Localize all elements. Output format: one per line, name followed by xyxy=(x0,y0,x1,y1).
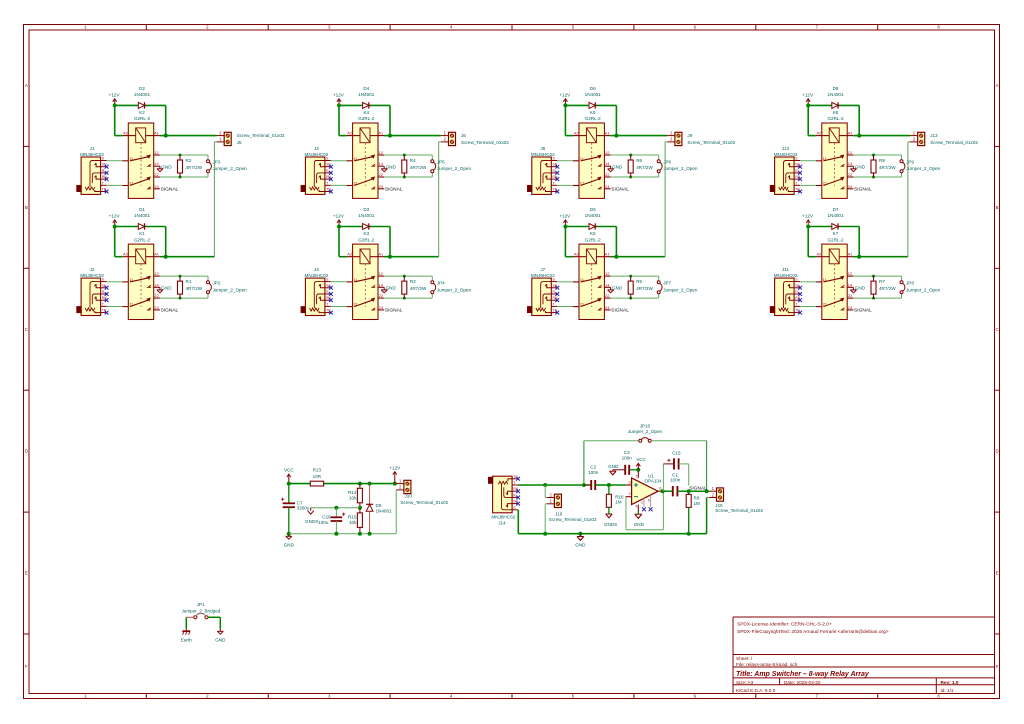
svg-text:12: 12 xyxy=(605,271,610,276)
svg-text:3: 3 xyxy=(629,480,631,484)
relay K1 (G2RL-2 DPDT) xyxy=(122,244,160,319)
svg-text:1: 1 xyxy=(641,500,643,504)
svg-text:T: T xyxy=(513,481,515,485)
wire K2 pins 12/22 to R2 and JP3 xyxy=(160,154,208,179)
svg-text:Jumper_2_Open: Jumper_2_Open xyxy=(906,166,941,171)
svg-text:SPDX-FileCopyrightText: 2025 A: SPDX-FileCopyrightText: 2025 Arnaud Ferr… xyxy=(737,629,889,635)
svg-text:GND: GND xyxy=(855,286,866,291)
ground GNDS at divider midpoint xyxy=(305,508,318,524)
wire +12V to K8 coil A2/A1 via D8 xyxy=(806,103,861,137)
svg-text:21: 21 xyxy=(353,302,358,307)
svg-text:R6: R6 xyxy=(636,158,642,163)
svg-text:R5: R5 xyxy=(636,279,642,284)
jumper JP5 (Jumper_2_Open) xyxy=(431,160,472,173)
svg-text:JP10: JP10 xyxy=(640,424,651,429)
svg-text:J3: J3 xyxy=(314,146,319,151)
wire J7 T to K5 pin 21 xyxy=(557,306,573,308)
ground GND on rail xyxy=(575,532,586,548)
K6 pin numbers xyxy=(574,130,611,188)
wire K7 pins 12/22 to R7 and JP8 xyxy=(853,275,901,300)
svg-text:1M: 1M xyxy=(694,501,701,506)
wire K8 pins 12/22 to R8 and JP9 xyxy=(853,154,901,179)
svg-text:MNJ6HC02: MNJ6HC02 xyxy=(491,515,515,520)
ground GND at K5 pin 14 xyxy=(608,286,623,293)
wire power section ground rail xyxy=(289,532,396,536)
net label SIGNAL at K5 pin 24 xyxy=(611,308,629,314)
svg-text:Screw_Terminal_01x02: Screw_Terminal_01x02 xyxy=(461,140,509,145)
wire K6 A1 to screw terminal J9 pin 1 xyxy=(616,135,667,137)
svg-text:MNJ6HC02: MNJ6HC02 xyxy=(80,273,104,278)
svg-text:GND: GND xyxy=(161,286,172,291)
svg-text:Title: Amp Switcher – 8-way Re: Title: Amp Switcher – 8-way Relay Array xyxy=(736,671,870,678)
net label SIGNAL at K8 pin 24 xyxy=(854,187,872,193)
svg-text:K2: K2 xyxy=(139,110,145,115)
no-connect flags on J11 xyxy=(798,286,802,315)
connector J3 (MNJ6HC02 jack) xyxy=(301,146,332,195)
svg-text:Jumper_2_Open: Jumper_2_Open xyxy=(663,166,698,171)
wire U1 output node xyxy=(661,489,673,493)
wire J15 pin 2 to ground rail xyxy=(707,498,709,534)
svg-text:14: 14 xyxy=(379,161,384,166)
svg-text:GND: GND xyxy=(855,165,866,170)
svg-text:Earth: Earth xyxy=(181,638,192,643)
connector J12 (MNJ6HC02 jack) xyxy=(770,146,801,195)
svg-text:C3: C3 xyxy=(624,450,630,455)
svg-text:GNDS: GNDS xyxy=(305,519,318,524)
relay K6 (G2RL-2 DPDT) xyxy=(573,123,611,198)
svg-text:SIGNAL: SIGNAL xyxy=(161,308,179,314)
svg-text:Screw_Terminal_01x02: Screw_Terminal_01x02 xyxy=(715,508,763,513)
ground GND at C3 xyxy=(608,464,619,475)
wire J7 S to K5 pin 11 xyxy=(557,281,573,283)
connector J1 (MNJ6HC02 jack) xyxy=(77,146,108,195)
jumper JP3 (Jumper_2_Open) xyxy=(207,160,248,173)
resistor R9 (1M) xyxy=(686,491,700,534)
wire +12V to K2 coil A2/A1 via D2 xyxy=(113,103,168,137)
svg-text:K5: K5 xyxy=(590,231,596,236)
no-connect flags on J12 xyxy=(798,165,802,194)
svg-text:12: 12 xyxy=(848,271,853,276)
svg-text:A2: A2 xyxy=(574,252,580,257)
ground GNDS below R16 xyxy=(604,514,617,527)
power flag +12V (K1) xyxy=(109,214,121,227)
svg-text:B: B xyxy=(25,205,28,210)
connector J11 (MNJ6HC02 jack) xyxy=(770,267,801,316)
ground GND at K2 pin 14 xyxy=(157,165,172,172)
resistor R4 (4R7/2W) xyxy=(402,155,427,177)
screw terminal J16 (Screw_Terminal_01x02) xyxy=(547,492,597,522)
K7 reference and value labels xyxy=(827,231,844,242)
jumper JP4 (Jumper_2_Open) xyxy=(431,281,472,294)
svg-text:Jumper_2_Open: Jumper_2_Open xyxy=(663,287,698,292)
border row letters xyxy=(25,83,999,669)
capacitor C3 (100n decoupling) xyxy=(613,450,639,475)
wire J3 T to K4 pin 21 xyxy=(331,184,347,186)
relay K2 (G2RL-2 DPDT) xyxy=(122,123,160,198)
svg-text:12: 12 xyxy=(605,150,610,155)
svg-text:MNJ6HC02: MNJ6HC02 xyxy=(531,273,555,278)
svg-text:JP2: JP2 xyxy=(213,281,221,286)
title block frame xyxy=(733,617,995,694)
svg-text:KiCad E.D.A. 9.0.0: KiCad E.D.A. 9.0.0 xyxy=(736,688,776,693)
wire K4 A1 to screw terminal J6 pin 1 xyxy=(390,135,441,137)
wire J3 S to K4 pin 11 xyxy=(331,160,347,162)
svg-text:+12V: +12V xyxy=(109,214,121,219)
svg-text:D: D xyxy=(25,449,28,454)
svg-text:MNJ6HC02: MNJ6HC02 xyxy=(305,152,329,157)
feedback wire U1 output to inverting input xyxy=(625,491,663,530)
svg-text:G2RL-2: G2RL-2 xyxy=(134,237,151,242)
svg-text:JP1: JP1 xyxy=(197,602,205,607)
wire J10 pin 2 to ground rail xyxy=(395,490,397,534)
svg-text:D5: D5 xyxy=(590,207,596,212)
svg-text:1N4001: 1N4001 xyxy=(376,509,393,514)
svg-text:+12V: +12V xyxy=(559,92,571,97)
svg-text:GND: GND xyxy=(634,522,645,527)
svg-text:G2RL-2: G2RL-2 xyxy=(134,116,151,121)
relay K4 (G2RL-2 DPDT) xyxy=(347,123,385,198)
svg-text:J5: J5 xyxy=(237,140,242,145)
svg-text:22: 22 xyxy=(605,172,610,177)
wire J8 S to K6 pin 11 xyxy=(557,160,573,162)
wire +12V to K7 coil A2/A1 via D7 xyxy=(806,225,861,259)
no-connect flags on J4 xyxy=(329,286,333,315)
svg-text:SIGNAL: SIGNAL xyxy=(161,187,179,193)
wire K4 pins 12/22 to R4 and JP5 xyxy=(384,154,432,179)
screw terminal J6 (Screw_Terminal_01x02) xyxy=(441,130,509,145)
jumper JP2 (Jumper_2_Open) xyxy=(207,281,248,294)
svg-text:R7: R7 xyxy=(879,279,885,284)
svg-text:VCC: VCC xyxy=(284,467,294,472)
screw terminal J5 (Screw_Terminal_01x02) xyxy=(217,130,285,145)
resistor R1 (4R7/2W) xyxy=(178,276,203,298)
svg-text:Jumper_2_Bridged: Jumper_2_Bridged xyxy=(181,609,220,614)
svg-text:14: 14 xyxy=(379,282,384,287)
svg-text:T: T xyxy=(102,302,104,306)
connector J4 (MNJ6HC02 jack) xyxy=(301,267,332,316)
wire J1 S to K2 pin 11 xyxy=(107,160,123,162)
wire J14 S to ground rail xyxy=(517,510,519,534)
K8 pin numbers xyxy=(816,130,853,188)
svg-text:4: 4 xyxy=(635,504,637,508)
svg-text:22: 22 xyxy=(848,293,853,298)
relay K3 (G2RL-2 DPDT) xyxy=(347,244,385,319)
svg-text:R4: R4 xyxy=(410,158,416,163)
svg-text:1N4001: 1N4001 xyxy=(585,92,602,97)
capacitor C2 (100n) xyxy=(584,465,609,490)
ground GND at K1 pin 14 xyxy=(157,286,172,293)
svg-text:+12V: +12V xyxy=(802,214,814,219)
svg-text:22: 22 xyxy=(154,172,159,177)
K8 reference and value labels xyxy=(827,110,844,121)
svg-text:JP7: JP7 xyxy=(663,281,671,286)
svg-text:GND: GND xyxy=(161,165,172,170)
svg-text:G2RL-2: G2RL-2 xyxy=(358,237,375,242)
svg-text:JP9: JP9 xyxy=(906,160,914,165)
svg-text:21: 21 xyxy=(823,181,828,186)
wire +12V to K5 coil A2/A1 via D5 xyxy=(563,225,618,259)
svg-text:D: D xyxy=(996,449,999,454)
svg-text:A1: A1 xyxy=(605,130,611,135)
ground GND at K7 pin 14 xyxy=(850,286,865,293)
svg-text:10k: 10k xyxy=(349,495,357,500)
wire J12 S to K8 pin 11 xyxy=(800,160,816,162)
relay K5 (G2RL-2 DPDT) xyxy=(573,244,611,319)
svg-text:24: 24 xyxy=(848,305,853,310)
power flag +12V at J10 xyxy=(389,466,401,484)
svg-text:A: A xyxy=(25,83,28,88)
svg-text:A1: A1 xyxy=(378,252,384,257)
svg-text:12: 12 xyxy=(154,271,159,276)
svg-text:GND: GND xyxy=(612,165,623,170)
K4 pin numbers xyxy=(347,130,384,188)
svg-text:T: T xyxy=(102,181,104,185)
diode D9 (1N4001 reverse protection) xyxy=(366,484,392,534)
svg-text:1N4001: 1N4001 xyxy=(827,92,844,97)
svg-text:R1: R1 xyxy=(186,279,192,284)
svg-text:21: 21 xyxy=(129,302,134,307)
svg-text:21: 21 xyxy=(823,302,828,307)
border column numbers xyxy=(84,25,940,699)
svg-text:12: 12 xyxy=(379,150,384,155)
svg-text:A1: A1 xyxy=(848,252,854,257)
svg-text:GND: GND xyxy=(386,165,397,170)
svg-text:GND: GND xyxy=(284,543,295,548)
svg-text:Screw_Terminal_01x02: Screw_Terminal_01x02 xyxy=(687,140,735,145)
svg-text:JP4: JP4 xyxy=(437,281,445,286)
svg-text:Jumper_2_Open: Jumper_2_Open xyxy=(437,166,472,171)
power flag +12V (K8) xyxy=(802,92,814,105)
net label SIGNAL at K4 pin 24 xyxy=(385,187,403,193)
jumper JP9 (Jumper_2_Open) xyxy=(900,160,941,173)
svg-text:+12V: +12V xyxy=(109,92,121,97)
svg-text:K1: K1 xyxy=(139,231,145,236)
svg-text:R3: R3 xyxy=(410,279,416,284)
svg-text:J6: J6 xyxy=(461,133,466,138)
svg-text:24: 24 xyxy=(379,184,384,189)
svg-text:4R7/2W: 4R7/2W xyxy=(636,165,653,170)
svg-text:T: T xyxy=(795,302,797,306)
ground GND at U1 pin 4 xyxy=(634,511,645,527)
capacitor C15 (polarized, parallel with C1) xyxy=(663,451,688,492)
svg-text:F: F xyxy=(996,664,999,669)
wire J14 T input signal line xyxy=(518,483,591,487)
svg-text:24: 24 xyxy=(605,184,610,189)
power flag +12V (K6) xyxy=(559,92,571,105)
svg-text:100n: 100n xyxy=(622,456,633,461)
U1 unused pins 1 and 5 with no-connects xyxy=(641,495,653,511)
wire R14/R15 midpoint to GNDS and C16 xyxy=(311,506,362,510)
svg-text:J12: J12 xyxy=(782,146,790,151)
connector J7 (MNJ6HC02 jack) xyxy=(527,267,558,316)
screw terminal J13 (Screw_Terminal_01x02) xyxy=(910,130,978,145)
resistor R14 (10k) xyxy=(348,484,362,508)
capacitor C7 (3300u polarized) xyxy=(281,484,310,534)
svg-text:1N4001: 1N4001 xyxy=(358,213,375,218)
svg-text:Screw_Terminal_01x02: Screw_Terminal_01x02 xyxy=(930,140,978,145)
svg-text:14: 14 xyxy=(848,161,853,166)
svg-text:GND: GND xyxy=(575,542,586,547)
svg-text:MNJ6HC02: MNJ6HC02 xyxy=(774,152,798,157)
svg-text:22: 22 xyxy=(154,293,159,298)
svg-text:G2RL-2: G2RL-2 xyxy=(827,237,844,242)
svg-text:SIGNAL: SIGNAL xyxy=(611,308,629,314)
svg-text:24: 24 xyxy=(379,305,384,310)
net label SIGNAL at K3 pin 24 xyxy=(385,308,403,314)
svg-text:MNJ6HC02: MNJ6HC02 xyxy=(774,273,798,278)
svg-text:1N4001: 1N4001 xyxy=(358,92,375,97)
svg-text:C2: C2 xyxy=(590,465,596,470)
svg-text:D2: D2 xyxy=(139,86,145,91)
no-connect flags on J8 xyxy=(555,165,559,194)
svg-text:Jumper_2_Open: Jumper_2_Open xyxy=(437,287,472,292)
svg-text:A2: A2 xyxy=(123,252,129,257)
K6 reference and value labels xyxy=(585,110,602,121)
wire K5 pins 12/22 to R5 and JP7 xyxy=(611,275,659,300)
wire K3 pins 12/22 to R3 and JP4 xyxy=(384,275,432,300)
wire K1 pins 12/22 to R1 and JP2 xyxy=(160,275,208,300)
relay K8 (G2RL-2 DPDT) xyxy=(816,123,854,198)
svg-text:Rev: 1.0: Rev: 1.0 xyxy=(941,680,959,685)
svg-text:4R7/2W: 4R7/2W xyxy=(410,286,427,291)
connector J14 (MNJ6HC02 jack, mirrored) xyxy=(488,475,518,526)
svg-text:JP3: JP3 xyxy=(213,160,221,165)
resistor R13 (10R) xyxy=(310,468,323,486)
svg-text:14: 14 xyxy=(154,282,159,287)
svg-text:Screw_Terminal_01x02: Screw_Terminal_01x02 xyxy=(549,517,597,522)
svg-text:A2: A2 xyxy=(347,252,353,257)
svg-text:JP6: JP6 xyxy=(663,160,671,165)
power flag VCC xyxy=(284,467,294,483)
svg-text:+12V: +12V xyxy=(333,92,345,97)
resistor R6 (4R7/2W) xyxy=(628,155,653,177)
svg-text:+12V: +12V xyxy=(333,214,345,219)
no-connect flags on J7 xyxy=(555,286,559,315)
svg-text:D9: D9 xyxy=(376,503,382,508)
svg-text:B: B xyxy=(996,205,999,210)
net label SIGNAL at K6 pin 24 xyxy=(611,187,629,193)
power flag +12V (K2) xyxy=(109,92,121,105)
ground GND at JP1 xyxy=(215,629,226,643)
svg-text:D8: D8 xyxy=(833,86,839,91)
wire J11 T to K7 pin 21 xyxy=(800,306,816,308)
svg-text:7: 7 xyxy=(635,475,637,479)
jumper JP1 (Jumper_2_Bridged) xyxy=(181,602,220,619)
svg-text:4R7/2W: 4R7/2W xyxy=(879,286,896,291)
ground GND at K4 pin 14 xyxy=(381,165,396,172)
svg-text:SIGNAL: SIGNAL xyxy=(611,187,629,193)
wire J12 T to K8 pin 21 xyxy=(800,184,816,186)
svg-text:Jumper_2_Open: Jumper_2_Open xyxy=(628,429,663,434)
relay K7 (G2RL-2 DPDT) xyxy=(816,244,854,319)
wire J8 T to K6 pin 21 xyxy=(557,184,573,186)
svg-text:T: T xyxy=(553,302,555,306)
svg-text:T: T xyxy=(795,181,797,185)
svg-text:100n: 100n xyxy=(670,478,681,483)
jumper JP8 (Jumper_2_Open) xyxy=(900,281,941,294)
wire J11 S to K7 pin 11 xyxy=(800,281,816,283)
svg-text:A1: A1 xyxy=(154,252,160,257)
svg-text:K7: K7 xyxy=(833,231,839,236)
wire J4 T to K3 pin 21 xyxy=(331,306,347,308)
svg-text:14: 14 xyxy=(848,282,853,287)
svg-text:22: 22 xyxy=(605,293,610,298)
svg-text:R8: R8 xyxy=(879,158,885,163)
svg-text:D1: D1 xyxy=(139,207,145,212)
screw terminal J15 (Screw_Terminal_01x02) xyxy=(709,486,764,513)
jumper JP7 (Jumper_2_Open) xyxy=(657,281,698,294)
net label SIGNAL at output xyxy=(689,486,707,492)
svg-text:+12V: +12V xyxy=(389,466,401,471)
svg-text:J16: J16 xyxy=(555,512,563,517)
svg-text:Screw_Terminal_01x02: Screw_Terminal_01x02 xyxy=(400,500,448,505)
svg-text:5: 5 xyxy=(648,498,650,502)
svg-text:Date: 2025-03-20: Date: 2025-03-20 xyxy=(784,680,821,685)
svg-text:GND: GND xyxy=(608,464,619,469)
no-connect flags on J1 xyxy=(105,165,109,194)
svg-text:A1: A1 xyxy=(378,130,384,135)
net label SIGNAL at K1 pin 24 xyxy=(161,308,179,314)
power flag +12V (K5) xyxy=(559,214,571,227)
svg-text:1M: 1M xyxy=(615,500,622,505)
diode D1 (1N4001) xyxy=(134,207,151,230)
svg-text:R9: R9 xyxy=(694,496,700,501)
svg-text:K8: K8 xyxy=(833,110,839,115)
svg-text:A2: A2 xyxy=(816,252,822,257)
diode D8 (1N4001) xyxy=(827,86,844,109)
svg-text:21: 21 xyxy=(580,181,585,186)
svg-text:Sheet: /: Sheet: / xyxy=(736,656,753,661)
svg-text:4R7/2W: 4R7/2W xyxy=(186,165,203,170)
svg-text:C: C xyxy=(25,327,28,332)
svg-text:C1: C1 xyxy=(672,472,678,477)
svg-text:SIGNAL: SIGNAL xyxy=(854,187,872,193)
wire +12V to K1 coil A2/A1 via D1 xyxy=(113,225,168,259)
svg-text:4R7/2W: 4R7/2W xyxy=(636,286,653,291)
svg-text:J11: J11 xyxy=(782,267,790,272)
svg-text:E: E xyxy=(996,571,999,576)
svg-text:T: T xyxy=(553,181,555,185)
svg-text:A: A xyxy=(996,83,999,88)
wire K1 A1 to screw terminal J5 lower pin xyxy=(166,142,217,257)
wire VCC rail to J10 xyxy=(287,482,397,486)
wire K6 pins 12/22 to R6 and JP6 xyxy=(611,154,659,179)
svg-text:K6: K6 xyxy=(590,110,596,115)
K2 pin numbers xyxy=(123,130,160,188)
power flag +12V (K7) xyxy=(802,214,814,227)
svg-text:4R7/2W: 4R7/2W xyxy=(879,165,896,170)
diode D2 (1N4001) xyxy=(134,86,151,109)
wire +12V to K4 coil A2/A1 via D4 xyxy=(337,103,392,137)
svg-text:J14: J14 xyxy=(498,520,506,525)
svg-text:K4: K4 xyxy=(363,110,369,115)
svg-text:A2: A2 xyxy=(816,130,822,135)
wire K8 A1 to screw terminal J13 pin 1 xyxy=(859,135,910,137)
resistor R2 (4R7/2W) xyxy=(178,155,203,177)
svg-text:14: 14 xyxy=(605,161,610,166)
screw terminal J9 (Screw_Terminal_01x02) xyxy=(667,130,735,145)
svg-text:D3: D3 xyxy=(363,207,369,212)
svg-text:D6: D6 xyxy=(590,86,596,91)
wire J4 S to K3 pin 11 xyxy=(331,281,347,283)
net label SIGNAL at K7 pin 24 xyxy=(854,308,872,314)
svg-text:SPDX-License-Identifier: CERN-: SPDX-License-Identifier: CERN-OHL-S-2.0+ xyxy=(737,621,832,627)
svg-text:MNJ6HC02: MNJ6HC02 xyxy=(531,152,555,157)
svg-text:A2: A2 xyxy=(347,130,353,135)
svg-text:6: 6 xyxy=(659,486,661,490)
ground GND below C7 xyxy=(284,532,295,548)
svg-text:File: relays-array-8.kicad_sch: File: relays-array-8.kicad_sch xyxy=(736,662,798,667)
